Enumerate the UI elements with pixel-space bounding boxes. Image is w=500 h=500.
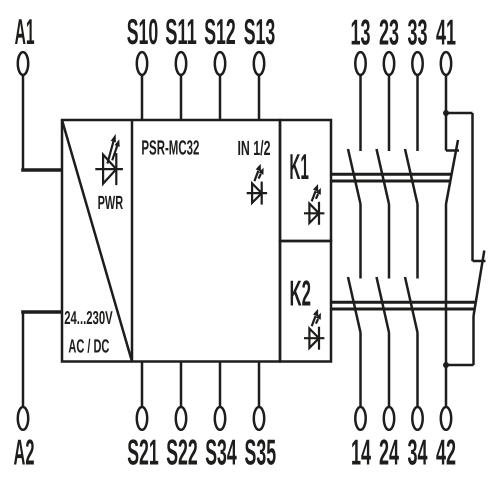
wire NC2 down (472, 316, 475, 365)
contact NC1 blade (446, 140, 458, 204)
svg-text:24: 24 (379, 432, 399, 473)
terminal circle S12 (215, 52, 225, 75)
LED input (247, 164, 267, 205)
svg-text:S11: S11 (165, 11, 197, 52)
wire 41 down (445, 75, 448, 113)
wire NC1 down (445, 204, 448, 365)
relay coil box K1 (280, 120, 331, 241)
svg-text:S13: S13 (244, 11, 276, 52)
LED PWR (95, 134, 123, 185)
contact K1 blade 23-24 (377, 149, 390, 204)
svg-text:S21: S21 (127, 432, 159, 473)
svg-text:K1: K1 (289, 146, 309, 187)
LED K1 (304, 184, 324, 225)
power section diagonal (62, 120, 132, 362)
wire 23 down (388, 75, 391, 151)
svg-text:S22: S22 (166, 432, 198, 473)
wire S13 (258, 75, 261, 120)
wire S12 (219, 75, 222, 120)
terminal circle A2 (18, 407, 28, 430)
wire A2 vertical (22, 312, 25, 407)
contact NC2 seat (473, 260, 486, 263)
svg-text:A1: A1 (15, 11, 35, 52)
terminal circle 42 (441, 407, 451, 430)
contact K2 blade 13-14 (348, 277, 361, 333)
svg-text:24...230V: 24...230V (64, 307, 113, 328)
terminal circle 34 (412, 407, 422, 430)
svg-text:K2: K2 (290, 273, 312, 314)
wire 13 down (359, 75, 362, 151)
K2 linkage bars (331, 301, 476, 304)
svg-text:PSR-MC32: PSR-MC32 (141, 137, 199, 160)
terminal circle S34 (215, 407, 225, 430)
wire 34 down (416, 333, 419, 408)
contact K1 blade 33-34 (405, 149, 418, 204)
wire branch bottom (446, 364, 474, 367)
terminal circle 14 (355, 407, 365, 430)
svg-text:IN 1/2: IN 1/2 (238, 137, 271, 160)
wire A2 horizontal (21, 310, 62, 314)
wire branch top (446, 112, 473, 115)
wire A1 vertical (22, 75, 25, 170)
terminal circle S35 (254, 407, 264, 430)
svg-text:23: 23 (379, 12, 399, 53)
contact K1 blade 13-14 (348, 149, 361, 204)
wire S11 (180, 75, 183, 120)
wire mid 23-24 (388, 204, 391, 279)
contact NC1 seat (446, 149, 459, 152)
svg-text:33: 33 (408, 12, 428, 53)
wire S35 (258, 362, 261, 408)
svg-text:S12: S12 (204, 11, 236, 52)
svg-text:PWR: PWR (98, 193, 124, 214)
wire S10 (141, 75, 144, 120)
LED K2 (304, 309, 324, 350)
wire S21 (141, 362, 144, 408)
wire mid 33-34 (416, 204, 419, 279)
terminal circle 23 (384, 52, 394, 75)
wire bracket right (471, 113, 474, 261)
contact K2 blade 33-34 (405, 277, 418, 333)
terminal circle S21 (137, 407, 147, 430)
svg-text:41: 41 (436, 12, 456, 53)
terminal circle 33 (412, 52, 422, 75)
svg-text:34: 34 (408, 432, 428, 473)
contact NC2 blade (474, 251, 485, 317)
wire 42 down (445, 365, 448, 407)
terminal circle 24 (384, 407, 394, 430)
terminal circle S22 (176, 407, 186, 430)
terminal circle 13 (355, 52, 365, 75)
svg-text:S35: S35 (245, 432, 277, 473)
relay coil box K2 (280, 241, 331, 362)
svg-text:AC / DC: AC / DC (68, 337, 109, 358)
wire mid 13-14 (359, 204, 362, 279)
svg-text:S34: S34 (205, 432, 237, 473)
wire 33 down (416, 75, 419, 151)
svg-text:14: 14 (351, 432, 371, 473)
wire S22 (180, 362, 183, 408)
svg-text:A2: A2 (14, 432, 35, 473)
terminal circle S13 (254, 52, 264, 75)
relay body box (62, 120, 280, 362)
wire S34 (219, 362, 222, 408)
svg-text:S10: S10 (127, 11, 159, 52)
junction dot 42 (443, 362, 449, 368)
terminal circle A1 (18, 52, 28, 75)
terminal circle S10 (137, 52, 147, 75)
wire 24 down (388, 333, 391, 408)
wire 14 down (359, 333, 362, 408)
wire A1 horizontal (21, 168, 62, 172)
contact K2 blade 23-24 (377, 277, 390, 333)
svg-text:42: 42 (436, 432, 456, 473)
svg-text:13: 13 (351, 12, 371, 53)
wire 41 to contact (445, 113, 448, 151)
junction dot 41 (443, 110, 449, 116)
power section divider (131, 120, 134, 362)
terminal circle 41 (441, 52, 451, 75)
K1 linkage bars (331, 173, 453, 176)
terminal circle S11 (176, 52, 186, 75)
